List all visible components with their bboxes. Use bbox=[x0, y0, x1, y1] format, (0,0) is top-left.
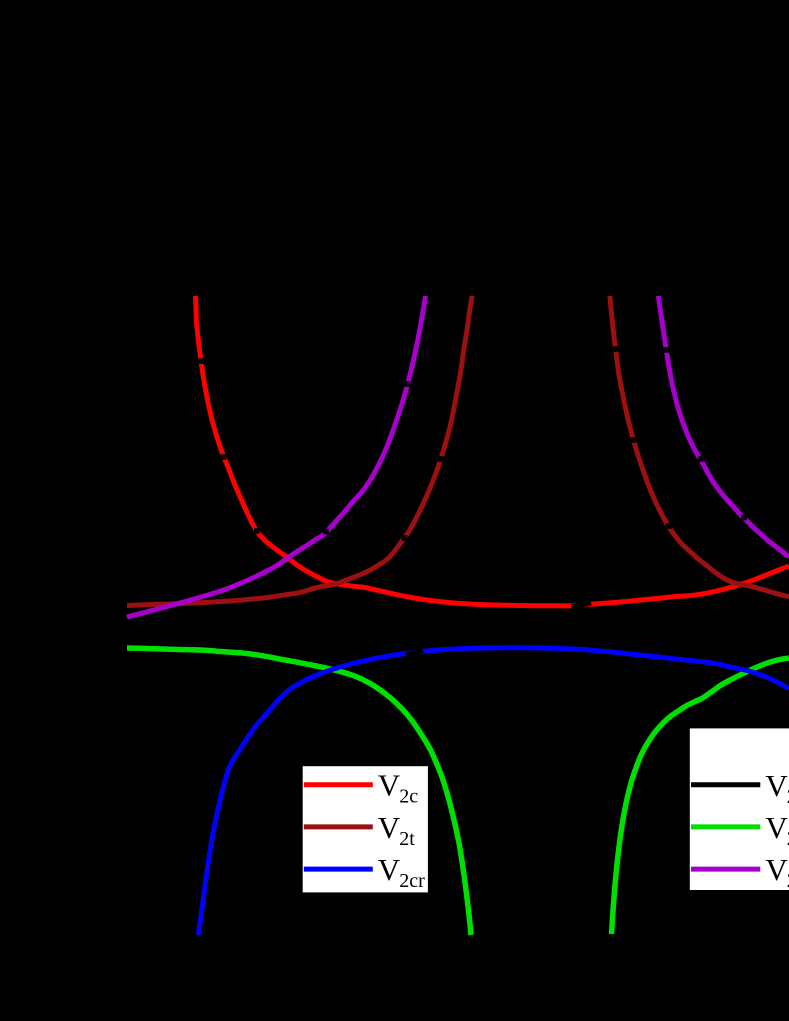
right legend box (cut off at image edge) bbox=[690, 728, 789, 890]
black data-point marker gaps on curves bbox=[199, 346, 747, 541]
left legend sample line V2cr blue bbox=[304, 867, 373, 872]
svg-text:V2: V2 bbox=[765, 768, 789, 808]
curve purple left rising branch bbox=[127, 296, 426, 617]
right legend sample line purple bbox=[691, 867, 760, 872]
left legend box bbox=[303, 766, 428, 892]
curve V2t dark red left rising branch bbox=[127, 296, 472, 606]
left legend sample line V2t dark red bbox=[304, 824, 373, 829]
curve purple right descending branch bbox=[658, 296, 789, 557]
right legend sample line green bbox=[691, 824, 760, 829]
svg-text:V2: V2 bbox=[765, 810, 789, 850]
curve V2cr blue bbox=[198, 648, 789, 935]
right legend sample line black bbox=[691, 782, 760, 787]
left legend sample line V2c red bbox=[304, 782, 373, 787]
black curve dash crossing blue near its minimum bbox=[406, 650, 423, 655]
curve V2t dark red right descending branch bbox=[610, 296, 789, 597]
curve V2c red bbox=[196, 296, 789, 606]
svg-text:V2: V2 bbox=[765, 852, 789, 892]
curve green left branch bbox=[127, 648, 471, 935]
curve green right branch bbox=[612, 658, 789, 934]
black curve dash crossing red near its minimum bbox=[572, 603, 592, 607]
